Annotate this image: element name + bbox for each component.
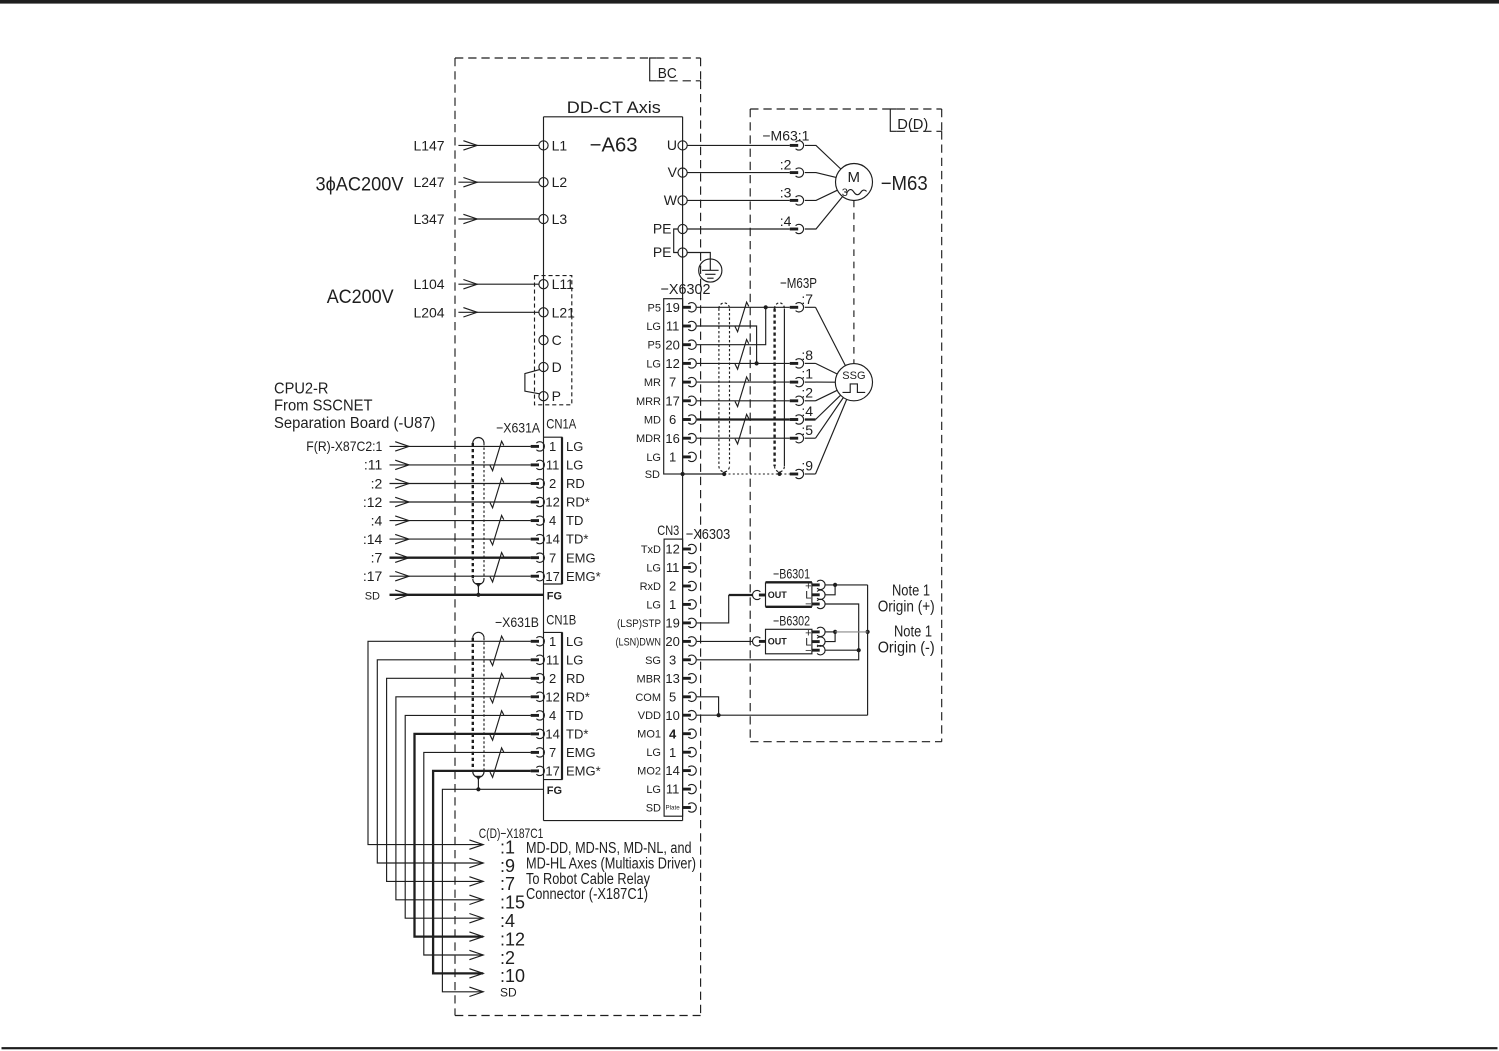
connector -B6301 plus bbox=[812, 580, 825, 589]
D(D) label box bbox=[890, 109, 941, 131]
svg-text::8: :8 bbox=[801, 347, 813, 363]
svg-text:VDD: VDD bbox=[638, 710, 661, 722]
pin 6 (MD) X6302 bbox=[669, 412, 696, 427]
svg-text:−A63: −A63 bbox=[590, 135, 638, 157]
svg-text:OUT: OUT bbox=[768, 637, 788, 647]
svg-text:20: 20 bbox=[665, 634, 679, 649]
svg-text:COM: COM bbox=[635, 692, 661, 704]
pin 1 (LG) X6302 bbox=[669, 450, 696, 465]
connector -M63P:2 bbox=[790, 396, 804, 405]
svg-text::4: :4 bbox=[371, 512, 383, 528]
svg-text:CN1A: CN1A bbox=[546, 416, 577, 432]
svg-text:3: 3 bbox=[669, 652, 676, 667]
svg-text:C: C bbox=[552, 332, 562, 348]
svg-text:10: 10 bbox=[665, 708, 679, 723]
svg-text:13: 13 bbox=[665, 671, 679, 686]
wire :4 to CN1A pin 4 bbox=[390, 520, 531, 522]
wire -M63P:1 to encoder bbox=[805, 381, 816, 383]
svg-text:SD: SD bbox=[646, 803, 661, 815]
wire SD to FG (CN1A) bbox=[390, 594, 544, 596]
pin 10 (VDD) CN3 bbox=[665, 708, 696, 723]
pin 11 (LG) CN3 bbox=[666, 560, 696, 575]
wire CN1B pin 11 to :9 bbox=[377, 660, 530, 863]
svg-text:FG: FG bbox=[547, 590, 562, 602]
svg-text:V: V bbox=[668, 164, 678, 180]
pin 1 (LG) CN3 bbox=[669, 597, 696, 612]
svg-text:LG: LG bbox=[646, 452, 661, 464]
svg-text:17: 17 bbox=[665, 393, 679, 408]
svg-text:L247: L247 bbox=[413, 174, 444, 190]
svg-text:4: 4 bbox=[549, 513, 556, 528]
svg-text:1: 1 bbox=[549, 634, 556, 649]
svg-text:W: W bbox=[664, 192, 678, 208]
svg-text:LG: LG bbox=[646, 784, 661, 796]
svg-text:BC: BC bbox=[658, 65, 677, 82]
wire -M63P:8 to encoder bbox=[805, 362, 816, 364]
pin 11 (LG) CN3 bbox=[666, 782, 696, 797]
twisted pair mark CN1B bbox=[490, 673, 504, 702]
svg-text:RD*: RD* bbox=[566, 495, 590, 510]
terminal D bbox=[539, 362, 548, 371]
origin sensor -B6302 box bbox=[766, 629, 812, 654]
twisted pair mark CN1A bbox=[490, 478, 504, 507]
arrow :7 bbox=[469, 877, 483, 886]
connector -B6302 minus bbox=[812, 645, 825, 654]
twisted pair mark CN1B bbox=[490, 636, 504, 665]
arrow SD bottom bbox=[469, 987, 483, 996]
wire STP to -B6301 bbox=[697, 595, 729, 623]
motor tilde bbox=[847, 190, 867, 195]
svg-text:20: 20 bbox=[665, 337, 679, 352]
connector CN1B pin 2 bbox=[531, 674, 545, 683]
connector -M63P:8 bbox=[790, 359, 804, 368]
svg-text::4: :4 bbox=[500, 911, 515, 931]
svg-text:L104: L104 bbox=[413, 276, 444, 292]
wire CN1B pin 7 to :2 bbox=[424, 752, 531, 955]
wire -M63:1 to motor bbox=[805, 145, 841, 169]
svg-text::12: :12 bbox=[500, 929, 525, 949]
svg-text:Plate: Plate bbox=[666, 805, 681, 812]
connector CN1B pin 7 bbox=[531, 748, 545, 757]
svg-text:MR: MR bbox=[644, 377, 661, 389]
svg-text:LG: LG bbox=[566, 634, 583, 649]
wire P5-19 to :7 bbox=[697, 306, 790, 308]
cable shield oval 1 bbox=[719, 303, 730, 474]
svg-text::5: :5 bbox=[801, 422, 813, 438]
connector CN1B pin 4 bbox=[531, 711, 545, 720]
svg-text::4: :4 bbox=[780, 213, 792, 229]
svg-text:LG: LG bbox=[566, 652, 583, 667]
pin 16 (MDR) X6302 bbox=[665, 431, 696, 446]
twisted pair mark CN1A bbox=[490, 441, 504, 470]
pin 4 (MO1) CN3 bbox=[669, 726, 696, 741]
connector -B6302 L bbox=[812, 637, 825, 646]
connector -M63P:7 bbox=[790, 303, 804, 312]
svg-text::2: :2 bbox=[780, 157, 792, 173]
connector CN1A pin 2 bbox=[531, 479, 545, 488]
svg-text::12: :12 bbox=[363, 494, 383, 510]
connector CN1B box bbox=[544, 632, 563, 779]
junction SD corner bbox=[681, 472, 685, 476]
pin 12 (LG) X6302 bbox=[665, 356, 696, 371]
wire :17 to CN1A pin 17 bbox=[390, 575, 531, 577]
svg-text:−X631B: −X631B bbox=[495, 614, 539, 630]
svg-text::3: :3 bbox=[780, 184, 792, 200]
svg-text::7: :7 bbox=[801, 291, 813, 307]
wire CN1B pin 1 to :1 bbox=[368, 641, 531, 844]
wire B6301 minus bbox=[825, 604, 858, 650]
svg-text:14: 14 bbox=[545, 727, 559, 742]
svg-text:Connector (-X187C1): Connector (-X187C1) bbox=[526, 886, 648, 903]
svg-text:SG: SG bbox=[645, 655, 661, 667]
wire -M63:4 to motor bbox=[805, 197, 843, 230]
svg-text:MBR: MBR bbox=[637, 673, 662, 685]
wire CN1B pin 2 to :7 bbox=[387, 678, 531, 881]
svg-text:(LSN)DWN: (LSN)DWN bbox=[616, 636, 662, 648]
wire -M63P:9 to encoder bbox=[805, 473, 816, 475]
svg-text:−M63: −M63 bbox=[881, 173, 928, 195]
wire L204 input bbox=[458, 311, 539, 313]
pin Plate (SD) CN3 bbox=[666, 803, 697, 812]
top border bar bbox=[0, 0, 1499, 4]
cable shield CN1A bbox=[473, 438, 484, 595]
wire B6301 L tie bbox=[825, 585, 835, 595]
svg-text:LG: LG bbox=[566, 439, 583, 454]
svg-text:L147: L147 bbox=[413, 137, 444, 153]
svg-text:D: D bbox=[552, 359, 562, 375]
twisted pair mark CN1A bbox=[490, 515, 504, 544]
svg-text:−X6302: −X6302 bbox=[661, 281, 711, 298]
connector CN1A pin 7 bbox=[531, 553, 545, 562]
pin 20 ((LSN)DWN) CN3 bbox=[665, 634, 696, 649]
junction shield2 drain bbox=[777, 472, 781, 476]
svg-text:L2: L2 bbox=[552, 174, 568, 190]
bottom border line bbox=[2, 1047, 1498, 1049]
svg-text:−: − bbox=[805, 645, 811, 657]
svg-text:OUT: OUT bbox=[768, 590, 788, 600]
wire :12 to CN1A pin 12 bbox=[390, 501, 531, 503]
BC label box bbox=[650, 58, 701, 81]
svg-text:11: 11 bbox=[666, 560, 680, 575]
pin 1 (LG) CN3 bbox=[669, 745, 696, 760]
pin 20 (P5) X6302 bbox=[665, 337, 696, 352]
svg-text::2: :2 bbox=[371, 475, 383, 491]
svg-text:LG: LG bbox=[566, 458, 583, 473]
pin 14 (MO2) CN3 bbox=[665, 763, 696, 778]
pin 7 (MR) X6302 bbox=[669, 375, 696, 390]
svg-text:TxD: TxD bbox=[641, 544, 661, 556]
wire PE to -M63:4 bbox=[687, 228, 790, 230]
junction LG bbox=[755, 361, 759, 365]
svg-text:−M63P: −M63P bbox=[780, 275, 817, 292]
twisted pair mark bbox=[735, 414, 749, 444]
svg-text:2: 2 bbox=[669, 579, 676, 594]
terminal W (W) bbox=[678, 196, 687, 205]
junction shield-FG CN1B bbox=[476, 787, 480, 791]
wire -M63P:5 to encoder bbox=[805, 437, 816, 439]
cable shield CN1B bbox=[473, 632, 484, 789]
svg-text:L3: L3 bbox=[552, 211, 568, 227]
wire L347 input bbox=[458, 218, 539, 220]
svg-text:L1: L1 bbox=[552, 137, 568, 153]
svg-text:TD: TD bbox=[566, 708, 583, 723]
junction COM-VDD bbox=[717, 713, 721, 717]
wire CN1B pin 4 to :4 bbox=[405, 715, 531, 918]
svg-text:12: 12 bbox=[545, 689, 559, 704]
svg-text:D(D): D(D) bbox=[897, 116, 928, 133]
terminal L1 bbox=[539, 141, 548, 150]
terminal L11 bbox=[539, 280, 548, 289]
arrow :4 bbox=[395, 516, 409, 525]
svg-text:12: 12 bbox=[665, 356, 679, 371]
svg-text:P5: P5 bbox=[648, 302, 661, 314]
svg-text:LG: LG bbox=[646, 321, 661, 333]
wire -M63:2 to motor bbox=[805, 173, 836, 178]
junction minus tie bbox=[857, 648, 861, 652]
connector -M63P:1 bbox=[790, 377, 804, 386]
arrow L104 bbox=[463, 280, 477, 289]
terminal U (U) bbox=[678, 141, 687, 150]
svg-text:−X6303: −X6303 bbox=[686, 526, 731, 543]
svg-text:19: 19 bbox=[665, 300, 679, 315]
junction B6302 plus-L bbox=[833, 630, 837, 634]
arrow L247 bbox=[463, 178, 477, 187]
wire CN1B pin 12 to :15 bbox=[396, 697, 531, 900]
wire VDD bbox=[697, 714, 868, 716]
svg-text:TD*: TD* bbox=[566, 727, 588, 742]
arrow :12 bbox=[395, 497, 409, 506]
connector CN1A pin 1 bbox=[531, 442, 545, 451]
wire B6302 minus bbox=[825, 649, 858, 651]
connector -M63:3 bbox=[790, 196, 804, 205]
wire L104 input bbox=[458, 283, 539, 285]
connector CN1B pin 11 bbox=[531, 655, 545, 664]
pin 11 (LG) X6302 bbox=[666, 319, 696, 334]
wire U to -M63:1 bbox=[687, 144, 790, 146]
arrow :14 bbox=[395, 534, 409, 543]
wire MDR-16 to :5 bbox=[697, 437, 790, 439]
svg-text::17: :17 bbox=[363, 568, 383, 584]
connector -M63P:9 bbox=[790, 469, 804, 478]
svg-text:RxD: RxD bbox=[640, 581, 661, 593]
connector CN3 box bbox=[664, 539, 683, 816]
twisted pair mark bbox=[735, 340, 749, 370]
twisted pair mark bbox=[735, 302, 749, 332]
junction shield1 drain bbox=[722, 472, 726, 476]
wire MRR-17 to :2 bbox=[697, 400, 790, 402]
svg-text:MO1: MO1 bbox=[637, 729, 661, 741]
svg-text::9: :9 bbox=[801, 458, 813, 474]
wire MR-7 to :1 bbox=[697, 381, 790, 383]
junction P5 bbox=[764, 305, 768, 309]
wire -M63P:2 to encoder bbox=[805, 400, 816, 402]
terminal L21 bbox=[539, 308, 548, 317]
control terminals dashed box bbox=[535, 276, 572, 405]
svg-text:2: 2 bbox=[549, 671, 556, 686]
svg-text:4: 4 bbox=[549, 708, 556, 723]
wire -M63P:7 to encoder bbox=[805, 306, 816, 308]
arrow :17 bbox=[395, 572, 409, 581]
arrow L347 bbox=[463, 214, 477, 223]
wire B6301 plus bbox=[825, 584, 867, 586]
svg-text::11: :11 bbox=[364, 457, 383, 473]
svg-text:7: 7 bbox=[549, 550, 556, 565]
svg-text:L11: L11 bbox=[552, 276, 575, 292]
wire B6302 L tie bbox=[825, 632, 835, 642]
ground symbol bbox=[699, 259, 722, 282]
svg-text:U: U bbox=[667, 137, 677, 153]
twisted pair mark CN1B bbox=[490, 748, 504, 777]
svg-text:16: 16 bbox=[665, 431, 679, 446]
svg-text:LG: LG bbox=[646, 563, 661, 575]
svg-text:Note 1: Note 1 bbox=[894, 624, 932, 641]
terminal P bbox=[539, 392, 548, 401]
svg-text:4: 4 bbox=[669, 726, 677, 741]
svg-text:PE: PE bbox=[653, 244, 672, 260]
terminal L2 bbox=[539, 178, 548, 187]
svg-text::1: :1 bbox=[801, 366, 813, 382]
svg-text:EMG*: EMG* bbox=[566, 764, 601, 779]
mechanical link dashed bbox=[853, 201, 855, 364]
svg-text::9: :9 bbox=[500, 856, 515, 876]
wire FG to SD (CN1B) bbox=[442, 789, 543, 992]
wire L247 input bbox=[458, 181, 539, 183]
wire SG bbox=[697, 650, 859, 660]
svg-text:3ϕAC200V: 3ϕAC200V bbox=[316, 174, 404, 195]
svg-text:−X631A: −X631A bbox=[496, 419, 541, 435]
wire B6302 plus bbox=[825, 631, 835, 633]
svg-text:CN3: CN3 bbox=[657, 522, 679, 538]
terminal C bbox=[539, 336, 548, 345]
svg-text:MDR: MDR bbox=[636, 433, 661, 445]
svg-text:11: 11 bbox=[666, 319, 680, 334]
connector -M63:4 bbox=[790, 224, 804, 233]
svg-text:SD: SD bbox=[365, 590, 380, 602]
svg-text:Separation Board (-U87): Separation Board (-U87) bbox=[274, 415, 436, 432]
svg-text:TD: TD bbox=[566, 513, 583, 528]
cable shield oval 2 bbox=[775, 303, 785, 474]
pin 3 (SG) CN3 bbox=[669, 652, 696, 667]
svg-text:14: 14 bbox=[665, 763, 679, 778]
wire DWN to -B6302 bbox=[697, 640, 753, 642]
wire PE to ground bbox=[687, 253, 710, 271]
svg-text:AC200V: AC200V bbox=[327, 287, 394, 308]
svg-text:MRR: MRR bbox=[636, 396, 661, 408]
connector -M63P:5 bbox=[790, 433, 804, 442]
svg-text:19: 19 bbox=[665, 616, 679, 631]
pin 19 ((LSP)STP) CN3 bbox=[665, 616, 696, 631]
origin sensor -B6301 box bbox=[766, 582, 812, 607]
svg-text:7: 7 bbox=[669, 375, 676, 390]
pin 19 (P5) X6302 bbox=[665, 300, 696, 315]
pin 13 (MBR) CN3 bbox=[665, 671, 696, 686]
connector -M63:1 bbox=[790, 141, 804, 150]
svg-text:SD: SD bbox=[645, 469, 660, 481]
wire P5-20 tie bbox=[697, 307, 766, 344]
svg-text:EMG: EMG bbox=[566, 550, 596, 565]
svg-text:1: 1 bbox=[669, 597, 676, 612]
wire CN1B pin 17 to :10 bbox=[433, 771, 531, 974]
terminal PE (PE2) bbox=[678, 248, 687, 257]
svg-text::2: :2 bbox=[500, 948, 515, 968]
wire drain dotted to :9 bbox=[724, 473, 790, 475]
twisted pair mark CN1A bbox=[490, 553, 504, 582]
wire :2 to CN1A pin 2 bbox=[390, 483, 531, 485]
pin 17 (MRR) X6302 bbox=[665, 393, 696, 408]
wire VDD riser bbox=[867, 585, 869, 715]
wire W to -M63:3 bbox=[687, 199, 790, 201]
svg-text:L204: L204 bbox=[413, 304, 444, 320]
svg-text:14: 14 bbox=[545, 532, 559, 547]
svg-text::2: :2 bbox=[801, 384, 813, 400]
junction B6301 plus-L bbox=[833, 583, 837, 587]
svg-text:6: 6 bbox=[669, 412, 676, 427]
connector -B6301 IN bbox=[752, 590, 765, 599]
wire F(R)-X87C2:1 to CN1A pin 1 bbox=[390, 445, 531, 447]
svg-text:11: 11 bbox=[666, 782, 680, 797]
connector -M63:2 bbox=[790, 168, 804, 177]
svg-text::15: :15 bbox=[500, 893, 525, 913]
terminal V (V) bbox=[678, 168, 687, 177]
pin 5 (COM) CN3 bbox=[669, 689, 696, 704]
arrow :7 bbox=[395, 553, 409, 562]
enclosure D(D) dashed box bbox=[750, 109, 942, 742]
svg-text::4: :4 bbox=[801, 403, 813, 419]
wire MD-6 to :4 bbox=[697, 418, 790, 420]
connector -B6301 minus bbox=[812, 599, 825, 608]
wire V to -M63:2 bbox=[687, 172, 790, 174]
connector CN1B pin 1 bbox=[531, 637, 545, 646]
connector CN1A pin 4 bbox=[531, 516, 545, 525]
svg-text:2: 2 bbox=[549, 476, 556, 491]
svg-text:RD: RD bbox=[566, 476, 585, 491]
svg-text:LG: LG bbox=[646, 747, 661, 759]
wire -M63P:4 to encoder bbox=[805, 418, 816, 420]
svg-text::7: :7 bbox=[500, 874, 515, 894]
svg-text:RD*: RD* bbox=[566, 689, 590, 704]
svg-text:1: 1 bbox=[549, 439, 556, 454]
svg-text:M: M bbox=[847, 169, 860, 186]
svg-text:C(D)−X187C1: C(D)−X187C1 bbox=[479, 825, 544, 841]
wire :11 to CN1A pin 11 bbox=[390, 464, 531, 466]
svg-text:Origin (+): Origin (+) bbox=[878, 599, 935, 616]
svg-text:17: 17 bbox=[545, 764, 559, 779]
svg-text:12: 12 bbox=[545, 495, 559, 510]
connector CN1A pin 17 bbox=[531, 572, 545, 581]
drive unit -A63 outline bbox=[544, 117, 683, 821]
wire B6302 plus grey bbox=[835, 631, 868, 633]
svg-text:L21: L21 bbox=[552, 304, 576, 320]
svg-text:TD*: TD* bbox=[566, 532, 588, 547]
twisted pair mark CN1B bbox=[490, 711, 504, 740]
connector -B6302 IN bbox=[752, 637, 765, 646]
arrow :11 bbox=[395, 460, 409, 469]
connector -M63P:4 bbox=[790, 415, 804, 424]
svg-text:Origin (-): Origin (-) bbox=[878, 640, 935, 657]
jumper D-P bbox=[525, 370, 540, 394]
terminal L3 bbox=[539, 214, 548, 223]
svg-text:(LSP)STP: (LSP)STP bbox=[617, 618, 661, 630]
arrow L204 bbox=[463, 308, 477, 317]
connector CN1B pin 12 bbox=[531, 692, 545, 701]
wire L147 input bbox=[458, 144, 539, 146]
svg-text:7: 7 bbox=[549, 745, 556, 760]
svg-text:−: − bbox=[805, 598, 811, 610]
connector CN1B pin 17 bbox=[531, 766, 545, 775]
svg-text:From SSCNET: From SSCNET bbox=[274, 398, 373, 415]
svg-text:LG: LG bbox=[646, 358, 661, 370]
svg-text::7: :7 bbox=[371, 550, 383, 566]
